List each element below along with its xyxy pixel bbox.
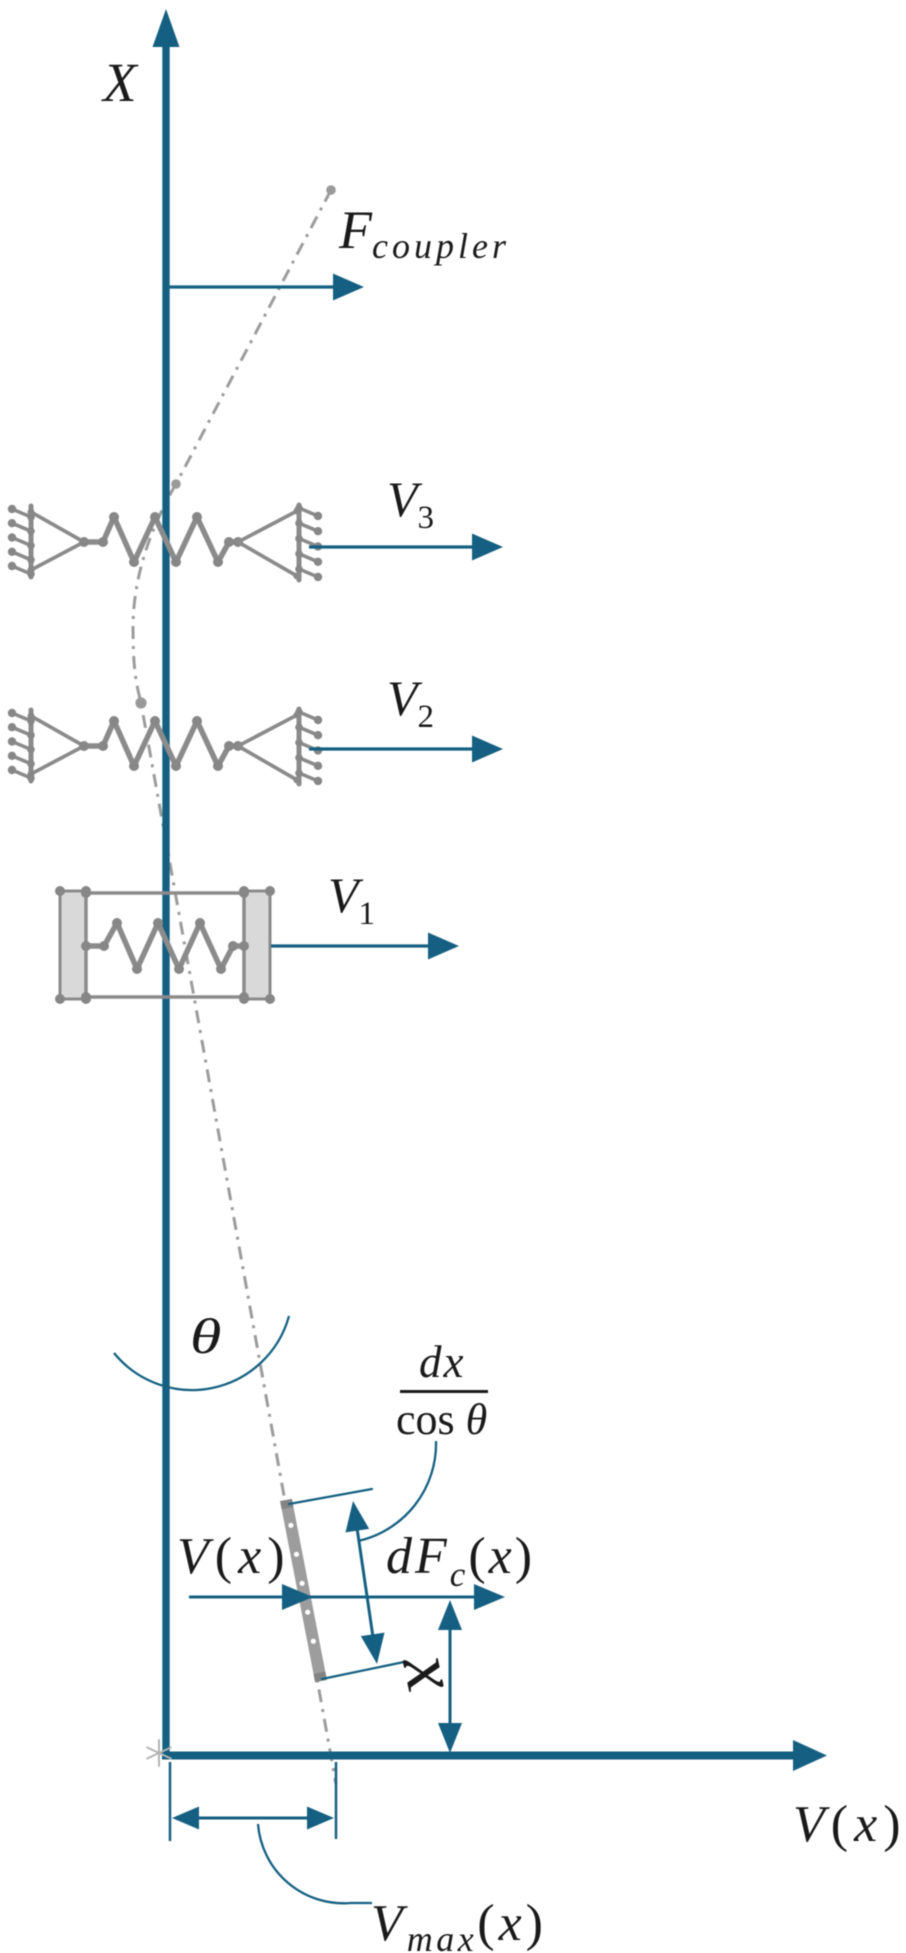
V3 right wall hatches	[295, 504, 322, 581]
X axis arrowhead	[153, 9, 180, 47]
V2 left wall hatches	[8, 709, 35, 782]
coupler node dot top	[326, 185, 336, 195]
V2 left wall bar	[29, 710, 34, 781]
V1 left end plate	[60, 891, 86, 999]
theta angle arc	[114, 1316, 289, 1390]
V1 right end plate	[244, 891, 270, 999]
Vmax tick left	[169, 1762, 172, 1841]
V1 corner dots	[55, 886, 275, 1004]
leader arc from fraction	[358, 1441, 436, 1541]
F_coupler arrow	[169, 274, 364, 301]
coupler node dot mid	[171, 479, 181, 489]
coupler curve dash-dot lower	[133, 484, 336, 1784]
V(x) axis arrowhead	[793, 1740, 827, 1771]
V3 left wall hatches	[8, 505, 35, 578]
V(x) axis horizontal line	[162, 1752, 795, 1760]
svg-text:θ: θ	[190, 1309, 221, 1364]
V2 right wall hatches	[295, 708, 322, 785]
inclined link bar	[286, 1500, 321, 1681]
V2 arrow	[309, 736, 503, 763]
svg-text:V(x): V(x)	[177, 1528, 291, 1585]
tick at bar top	[289, 1489, 372, 1504]
svg-text:X: X	[101, 52, 139, 113]
V2 right triangle	[238, 712, 301, 784]
V3 left triangle	[28, 509, 85, 574]
Vmax leader arc	[258, 1824, 372, 1903]
V3 right wall bar	[297, 505, 302, 580]
X axis vertical line	[162, 40, 169, 1759]
V2 right wall bar	[297, 709, 302, 784]
coupler node dot lower	[135, 697, 146, 708]
origin asterisk	[147, 1740, 171, 1766]
V3 arrow	[309, 534, 503, 561]
svg-text:cos θ: cos θ	[396, 1395, 487, 1444]
V3 left wall bar	[29, 506, 34, 577]
x height double arrow	[438, 1600, 462, 1753]
Vmax tick right	[335, 1762, 338, 1839]
Vmax double arrow	[172, 1807, 334, 1830]
svg-text:dx: dx	[419, 1337, 465, 1387]
tick at bar bottom	[322, 1662, 404, 1679]
theta label	[190, 1309, 221, 1364]
V3 right triangle	[238, 508, 301, 580]
fraction bar	[400, 1390, 488, 1393]
V1 housing rect	[86, 893, 244, 997]
V2 spring coil	[79, 716, 243, 771]
svg-text:V(x): V(x)	[793, 1796, 906, 1853]
V1 arrow	[271, 933, 459, 960]
V2 left triangle	[28, 713, 85, 778]
V(x)/dFc(x) horizontal arrow	[189, 1584, 505, 1610]
V3 spring coil	[79, 512, 243, 567]
coupler chord dash-dot segment	[176, 190, 331, 484]
V1 spring coil	[81, 918, 249, 974]
dx/cos theta double arrow	[346, 1501, 385, 1664]
